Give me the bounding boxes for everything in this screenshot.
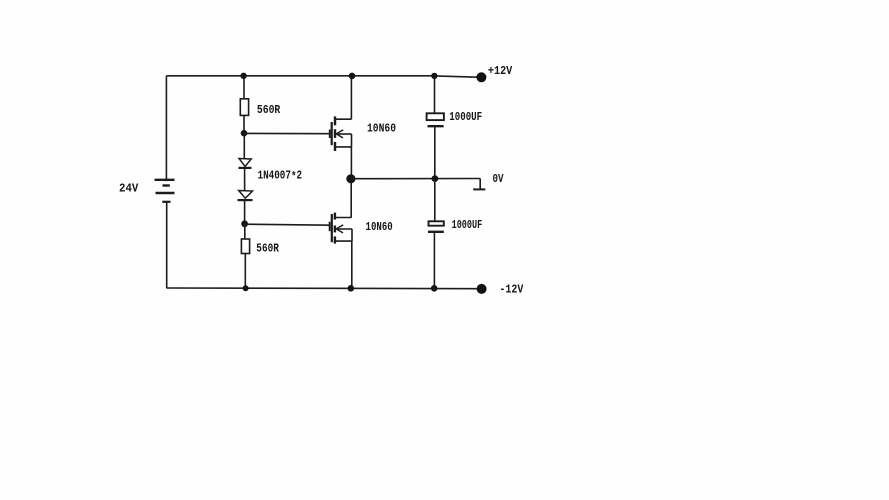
resistor 560R lower	[241, 239, 249, 254]
node 0V output junction	[346, 174, 355, 183]
node bottom rail at resistor column	[243, 285, 249, 291]
wire gate lead upper MOSFET	[244, 132, 330, 134]
svg-text:1N4007*2: 1N4007*2	[258, 169, 303, 185]
wire 0V node to C2	[434, 179, 436, 222]
label 10N60 lower MOSFET value	[366, 220, 393, 234]
node top rail at MOSFET column	[349, 73, 356, 80]
node top rail at resistor column	[240, 73, 246, 79]
wire 0V horizontal	[351, 178, 480, 180]
node bottom rail at MOSFET column	[348, 285, 355, 292]
label 1000UF upper capacitor value	[449, 110, 482, 124]
battery 24V	[155, 180, 175, 202]
svg-text:10N60: 10N60	[366, 220, 393, 234]
label 560R upper resistor value	[257, 103, 281, 117]
svg-text:+12V: +12V	[488, 64, 513, 78]
label 1000UF lower capacitor value	[452, 218, 483, 232]
svg-text:560R: 560R	[257, 103, 281, 117]
node capacitor mid junction	[432, 175, 439, 182]
node bottom rail at capacitor column	[431, 285, 438, 292]
svg-text:10N60: 10N60	[367, 122, 396, 136]
wire Q2 source to bottom rail	[351, 241, 353, 288]
node terminal +12V	[476, 72, 486, 82]
label 24V battery value	[119, 182, 139, 196]
svg-text:560R: 560R	[256, 241, 279, 255]
label 10N60 upper MOSFET value	[367, 122, 396, 136]
label 0V net	[493, 172, 504, 186]
svg-text:-12V: -12V	[499, 283, 523, 297]
wire top rail +12V	[166, 76, 478, 77]
label +12V net	[488, 64, 513, 78]
wire C1 to 0V node	[434, 126, 436, 178]
node top rail at capacitor column	[431, 73, 437, 79]
svg-text:0V: 0V	[493, 172, 504, 186]
diode D1 (1N4007)	[239, 159, 252, 168]
wire Q1 source to 0V node	[350, 147, 352, 179]
wire gate node to diode D1	[243, 133, 245, 158]
capacitor C2 1000UF	[428, 221, 444, 232]
wire D1 to D2	[244, 168, 246, 191]
ground 0V stub	[473, 179, 485, 190]
label -12V net	[499, 283, 523, 297]
wire capacitor column top	[434, 76, 436, 114]
wire Q1 drain to top rail	[350, 76, 352, 119]
wire gate lead lower MOSFET	[245, 224, 330, 225]
node lower gate junction	[241, 220, 248, 227]
svg-text:24V: 24V	[119, 182, 139, 196]
wire resistor column top	[243, 76, 245, 99]
resistor 560R upper	[240, 99, 248, 116]
capacitor C1 1000UF	[427, 113, 444, 126]
label 1N4007*2 diode value	[258, 169, 303, 185]
svg-text:1000UF: 1000UF	[449, 110, 482, 124]
transistor Q1 10N60 upper MOSFET	[330, 116, 352, 151]
label 560R lower resistor value	[256, 241, 279, 255]
node upper gate junction	[241, 130, 248, 137]
wire D2 to lower gate node	[244, 200, 246, 224]
svg-text:1000UF: 1000UF	[452, 218, 483, 232]
wire bottom rail -12V	[166, 287, 478, 290]
wire resistor to gate node	[243, 115, 245, 133]
diode D2 (1N4007)	[238, 191, 253, 201]
wire left vertical (battery column top)	[165, 76, 167, 181]
wire C2 to bottom rail	[433, 232, 435, 288]
transistor Q2 10N60 lower MOSFET	[330, 213, 353, 244]
wire gate node to resistor R2	[244, 224, 246, 239]
node terminal -12V	[477, 284, 487, 294]
wire R2 to bottom rail	[244, 254, 246, 289]
wire left vertical (battery column bottom)	[166, 202, 168, 288]
wire Q2 drain to 0V node	[350, 179, 352, 218]
